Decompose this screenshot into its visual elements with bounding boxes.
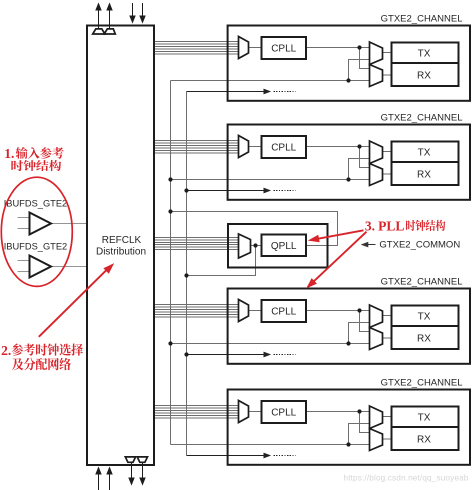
svg-text:IBUFDS_GTE2: IBUFDS_GTE2: [4, 242, 68, 252]
svg-text:CPLL: CPLL: [271, 143, 296, 154]
svg-text:RX: RX: [417, 170, 431, 181]
svg-text:RX: RX: [417, 435, 431, 446]
svg-text:Distribution: Distribution: [96, 246, 146, 257]
svg-text:TX: TX: [418, 312, 431, 323]
svg-text:CPLL: CPLL: [271, 44, 296, 55]
svg-text:https://blog.csdn.net/qq_suoye: https://blog.csdn.net/qq_suoyeab: [344, 473, 469, 482]
svg-text:TX: TX: [418, 148, 431, 159]
svg-text:RX: RX: [417, 71, 431, 82]
svg-text:CPLL: CPLL: [271, 408, 296, 419]
svg-text:CPLL: CPLL: [271, 307, 296, 318]
svg-text:GTXE2_CHANNEL: GTXE2_CHANNEL: [381, 377, 463, 388]
svg-text:PLL: PLL: [378, 219, 404, 234]
svg-text:TX: TX: [418, 49, 431, 60]
svg-text:GTXE2_CHANNEL: GTXE2_CHANNEL: [381, 112, 463, 123]
svg-text:REFCLK: REFCLK: [102, 235, 142, 246]
svg-text:1.: 1.: [4, 146, 14, 161]
svg-text:TX: TX: [418, 413, 431, 424]
svg-text:GTXE2_CHANNEL: GTXE2_CHANNEL: [381, 276, 463, 287]
svg-text:RX: RX: [417, 334, 431, 345]
svg-text:IBUFDS_GTE2: IBUFDS_GTE2: [4, 198, 68, 208]
svg-text:QPLL: QPLL: [271, 241, 297, 252]
svg-text:GTXE2_CHANNEL: GTXE2_CHANNEL: [381, 13, 463, 24]
svg-text:GTXE2_COMMON: GTXE2_COMMON: [379, 240, 460, 251]
svg-text:3.: 3.: [365, 219, 375, 234]
svg-text:2.: 2.: [1, 343, 11, 358]
